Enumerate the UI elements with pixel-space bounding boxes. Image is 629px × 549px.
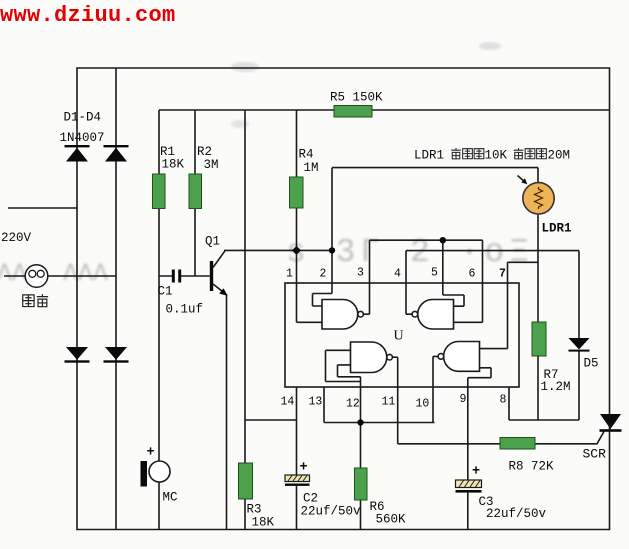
svg-text:18K: 18K [252, 516, 275, 530]
svg-text:18K: 18K [162, 158, 185, 172]
svg-text:R4: R4 [299, 148, 314, 162]
svg-text:ΛΛΛ: ΛΛΛ [63, 259, 108, 288]
svg-text:R3: R3 [247, 503, 262, 517]
svg-text:+: + [300, 461, 308, 476]
svg-text:4: 4 [394, 268, 401, 281]
svg-text:560K: 560K [376, 513, 407, 527]
svg-text:8: 8 [500, 394, 507, 407]
svg-text:SCR: SCR [583, 447, 607, 462]
svg-text:0.1uf: 0.1uf [166, 303, 204, 317]
svg-text:Q1: Q1 [205, 235, 220, 249]
svg-text:1.2M: 1.2M [541, 380, 571, 394]
svg-text:22uf/50v: 22uf/50v [486, 507, 547, 521]
svg-text:D1-D4: D1-D4 [64, 111, 102, 125]
svg-text:C2: C2 [303, 492, 318, 506]
svg-text:www.dziuu.com: www.dziuu.com [0, 3, 176, 28]
svg-text:R5 150K: R5 150K [330, 91, 383, 105]
svg-text:LDR1: LDR1 [542, 222, 572, 236]
svg-text:20M: 20M [548, 149, 571, 163]
svg-text:MC: MC [163, 491, 178, 505]
svg-text:1M: 1M [304, 161, 319, 175]
svg-text:14: 14 [281, 396, 295, 409]
svg-text:22uf/50v: 22uf/50v [301, 505, 362, 519]
svg-text:6: 6 [469, 268, 476, 281]
svg-text:1N4007: 1N4007 [60, 131, 105, 145]
svg-text:9: 9 [460, 393, 467, 406]
svg-text:D5: D5 [584, 357, 599, 371]
svg-text:R8 72K: R8 72K [509, 460, 555, 474]
svg-text:12: 12 [346, 398, 360, 411]
svg-text:C1: C1 [158, 285, 173, 299]
svg-text:7: 7 [499, 268, 506, 281]
svg-text:R2: R2 [197, 145, 212, 159]
svg-text:ΛΛ: ΛΛ [0, 259, 27, 288]
svg-text:13: 13 [309, 396, 323, 409]
svg-text:10: 10 [416, 398, 430, 411]
svg-text:+: + [147, 446, 155, 461]
svg-text:220V: 220V [1, 231, 32, 245]
svg-text:+: + [472, 465, 480, 480]
svg-text:3: 3 [357, 267, 364, 280]
svg-text:1: 1 [286, 268, 293, 281]
svg-text:2: 2 [320, 268, 327, 281]
svg-text:U: U [394, 329, 404, 344]
svg-text:10K: 10K [485, 149, 508, 163]
svg-text:3M: 3M [204, 158, 219, 172]
svg-text:5: 5 [431, 267, 438, 280]
svg-text:11: 11 [382, 396, 396, 409]
svg-text:LDR1: LDR1 [414, 149, 444, 163]
